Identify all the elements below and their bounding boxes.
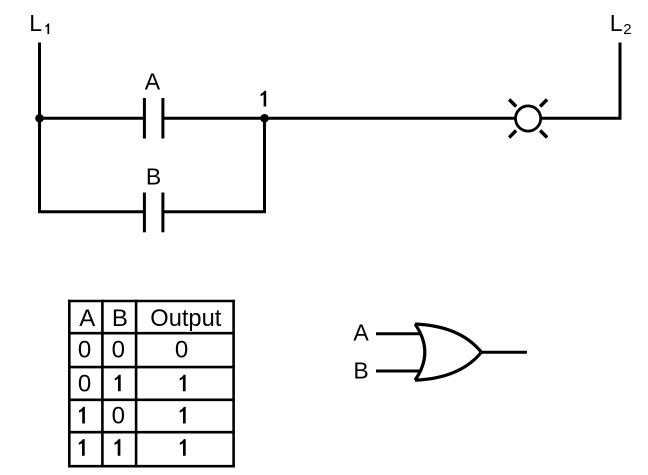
svg-text:L: L (610, 10, 623, 36)
svg-text:L: L (29, 10, 42, 36)
svg-text:2: 2 (623, 21, 631, 38)
svg-text:B: B (353, 358, 368, 384)
svg-text:Output: Output (150, 305, 221, 332)
svg-text:B: B (112, 305, 128, 332)
svg-text:A: A (353, 320, 369, 346)
svg-text:A: A (145, 69, 161, 95)
svg-text:0: 0 (78, 337, 91, 364)
svg-text:0: 0 (175, 337, 188, 364)
svg-text:B: B (146, 164, 161, 190)
svg-text:0: 0 (78, 370, 91, 397)
svg-text:0: 0 (112, 403, 125, 430)
svg-text:0: 0 (112, 337, 125, 364)
svg-text:A: A (79, 305, 95, 332)
